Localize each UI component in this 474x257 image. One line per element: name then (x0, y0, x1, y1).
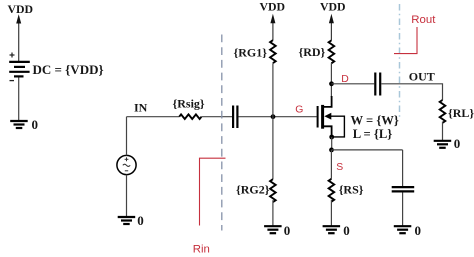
transistor M1 drain lead (323, 96, 332, 107)
resistor Rsig zigzag (179, 114, 201, 119)
svg-text:{RS}: {RS} (339, 183, 364, 197)
svg-text:{RG2}: {RG2} (236, 183, 270, 197)
resistor RS zigzag (329, 179, 335, 202)
svg-text:VDD: VDD (260, 0, 286, 13)
node junction dot at G column (271, 114, 276, 119)
resistor RL zigzag (440, 100, 446, 123)
VDD arrow symbol (RG1 branch) (270, 14, 275, 41)
Rout boundary dash-dot line (399, 4, 401, 118)
ground (CS) (394, 226, 412, 233)
ground (RL) (434, 141, 452, 148)
svg-text:{RG1}: {RG1} (234, 46, 268, 60)
svg-text:{RD}: {RD} (299, 45, 326, 59)
wire D to C2 (332, 83, 375, 85)
node source-bulk junction dot (329, 135, 334, 140)
svg-text:0: 0 (32, 117, 39, 132)
ac source minus (125, 170, 128, 172)
ground (RS) (323, 226, 341, 233)
svg-text:IN: IN (134, 101, 148, 115)
Rout probe bracket (394, 27, 417, 54)
wire C2 to OUT and RL (381, 84, 442, 100)
resistor RG1 zigzag (270, 40, 276, 63)
transistor M1 channel bar (321, 105, 324, 129)
VDD arrow symbol (battery branch) (16, 14, 21, 61)
svg-text:0: 0 (343, 223, 350, 238)
transistor M1 bulk lead (331, 116, 345, 137)
svg-text:0: 0 (415, 223, 422, 238)
wire S to RS (330, 150, 332, 179)
resistor RD zigzag (329, 40, 335, 63)
wire RG1 to G junction (272, 63, 274, 116)
wire RG2 to ground (272, 200, 274, 226)
svg-text:G: G (295, 105, 303, 116)
svg-text:W = {W}: W = {W} (351, 114, 399, 128)
svg-text:Rout: Rout (411, 14, 436, 26)
node S junction dot (329, 148, 334, 153)
wire ac source down to ground (126, 175, 128, 217)
transistor M1 gate bar (317, 106, 319, 128)
svg-text:VDD: VDD (320, 0, 346, 13)
wire RD to D node and to drain (330, 63, 332, 97)
capacitor C1 plates (233, 106, 237, 129)
transistor M1 source lead (323, 126, 332, 137)
wire CS to ground (402, 192, 404, 226)
voltage source V1 battery symbol (9, 62, 30, 77)
battery minus sign (10, 80, 15, 82)
ac source plus (125, 157, 129, 161)
VDD arrow symbol (RD branch) (329, 14, 334, 41)
svg-text:DC = {VDD}: DC = {VDD} (33, 62, 104, 77)
svg-text:{Rsig}: {Rsig} (173, 97, 205, 111)
wire RL to ground (442, 122, 444, 141)
svg-text:{RL}: {RL} (448, 106, 474, 120)
ground (ac source) (118, 217, 136, 224)
ac source Vsig circle (117, 155, 136, 174)
capacitor CS plates (392, 187, 415, 191)
wire IN to Rsig (127, 116, 180, 118)
svg-text:L = {L}: L = {L} (353, 127, 393, 141)
svg-text:VDD: VDD (8, 2, 34, 16)
wire Rsig to C1 (202, 116, 233, 118)
wire battery to ground (18, 78, 20, 122)
svg-text:0: 0 (284, 223, 291, 238)
svg-text:Rin: Rin (193, 244, 210, 256)
battery plus sign (10, 53, 15, 58)
ground (RG2) (264, 226, 282, 233)
ac source tilde (123, 164, 130, 166)
wire C1 to gate (238, 116, 316, 118)
svg-text:S: S (336, 162, 343, 173)
wire RS to ground (330, 200, 332, 226)
wire source dot to S node (331, 137, 333, 150)
svg-text:OUT: OUT (409, 70, 435, 84)
ground (battery) (10, 121, 28, 128)
svg-text:0: 0 (137, 213, 144, 228)
wire S node to CS (332, 149, 403, 151)
svg-text:0: 0 (454, 136, 461, 151)
transistor M1 bulk arrow (324, 113, 331, 120)
Rin probe bracket (200, 158, 226, 225)
node D junction dot (329, 81, 334, 86)
capacitor C2 plates (375, 73, 380, 96)
wire down to CS (402, 150, 404, 186)
wire ac source up to IN (126, 117, 128, 156)
resistor RG2 zigzag (270, 179, 276, 202)
Rin boundary dashed line (221, 35, 223, 231)
wire G junction down to RG2 (272, 117, 274, 180)
